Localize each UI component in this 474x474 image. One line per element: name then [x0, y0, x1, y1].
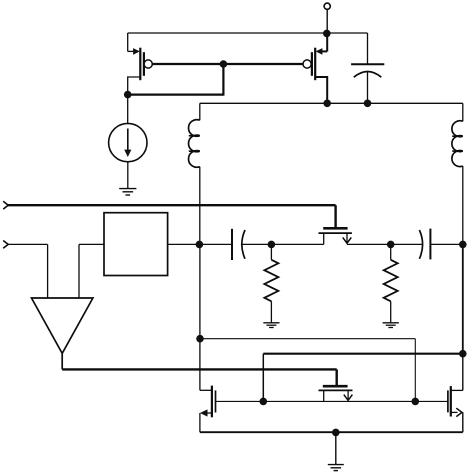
transistor M3 varactor: [319, 228, 352, 244]
transistor M5 NMOS left: [200, 386, 216, 433]
node C1 dot: [364, 100, 372, 108]
supply terminal: [324, 3, 330, 34]
capacitor C2: [232, 229, 245, 260]
node dot right rail y=353.7: [459, 350, 467, 358]
ground G4: [328, 432, 344, 470]
wire mirror feedback L: [128, 64, 224, 96]
node mirror gate dot: [220, 60, 228, 68]
wire amp output: [62, 353, 337, 386]
ground G2: [263, 323, 279, 328]
input 1 arrow: [3, 201, 8, 209]
wire gate line y=401: [216, 400, 448, 402]
inductor L1: [189, 103, 200, 244]
wire bottom rail: [200, 431, 463, 433]
capacitor C3: [419, 229, 430, 260]
ground G3: [383, 323, 399, 328]
resistor R1: [264, 244, 278, 322]
ground G1: [119, 189, 136, 195]
wire feedback y=338.7: [200, 339, 415, 402]
transistor M6 NMOS right: [448, 354, 463, 433]
transistor M2 PMOS: [303, 34, 327, 104]
op-amp A1 triangle: [32, 298, 93, 353]
node supply dot: [323, 30, 331, 38]
wire feedback y=353.7: [263, 354, 463, 402]
input 2 arrow: [3, 241, 8, 249]
node dot R1: [268, 241, 276, 249]
node dot bottom: [332, 429, 340, 437]
box U1: [104, 213, 168, 276]
wire input 2: [7, 244, 47, 298]
wire box to amp: [79, 244, 104, 298]
node dot y=338.7: [196, 335, 204, 343]
node dot right y=401: [412, 398, 420, 406]
transistor M4 NMOS middle: [319, 386, 353, 401]
node dot C3/L2: [459, 241, 467, 249]
wire mirror gate: [152, 63, 303, 65]
wire left vertical x=200: [200, 244, 212, 390]
capacitor C1: [351, 64, 384, 103]
inductor L2: [452, 103, 463, 353]
node dot L1/C2: [196, 241, 204, 249]
resistor R2: [384, 244, 398, 322]
wire top rail y=33: [128, 33, 368, 64]
current source I1: [109, 95, 147, 188]
node M1 drain dot: [124, 91, 132, 99]
wire rail y=103: [200, 102, 463, 104]
wire node V y=244 segments: [168, 243, 463, 245]
transistor M1 PMOS diode-connected: [128, 33, 153, 95]
wire tune input: [7, 205, 335, 227]
node dot R2: [387, 241, 395, 249]
node dot left y=401: [260, 398, 268, 406]
node M2 drain dot: [323, 100, 331, 108]
